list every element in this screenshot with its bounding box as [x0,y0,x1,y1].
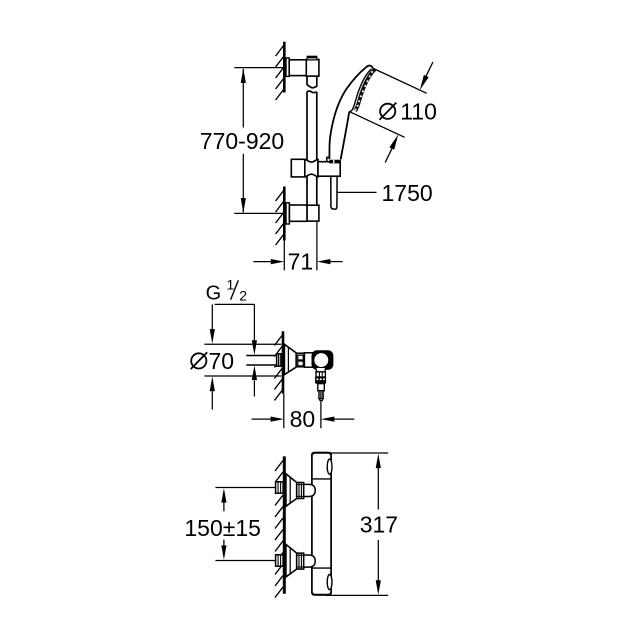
svg-text:770-920: 770-920 [200,128,284,154]
svg-text:150±15: 150±15 [184,515,261,541]
svg-text:2: 2 [239,288,247,304]
svg-text:70: 70 [209,348,235,374]
svg-text:71: 71 [288,249,314,275]
svg-text:1750: 1750 [382,180,433,206]
svg-text:G: G [206,283,222,305]
svg-text:80: 80 [290,406,316,432]
svg-text:1: 1 [227,276,235,292]
svg-text:110: 110 [400,99,437,125]
svg-text:317: 317 [360,511,398,537]
